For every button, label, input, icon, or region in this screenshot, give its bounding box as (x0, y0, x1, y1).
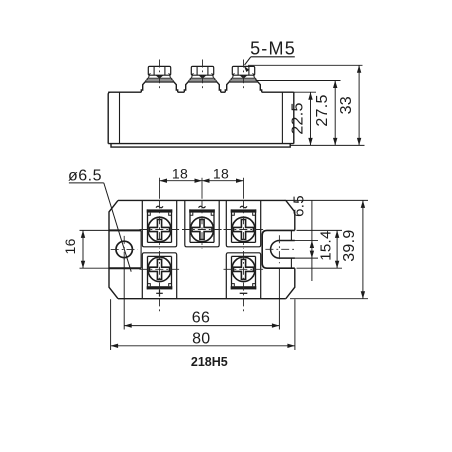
svg-text:33: 33 (338, 96, 355, 114)
svg-text:39.9: 39.9 (341, 229, 358, 261)
svg-text:6.5: 6.5 (290, 195, 307, 217)
svg-text:80: 80 (192, 330, 210, 347)
svg-text:5-M5: 5-M5 (250, 39, 296, 59)
svg-text:16: 16 (62, 238, 78, 254)
svg-text:66: 66 (192, 309, 210, 326)
svg-text:22.5: 22.5 (289, 102, 306, 134)
svg-text:15.4: 15.4 (318, 230, 335, 260)
svg-text:18: 18 (213, 165, 229, 181)
svg-text:218H5: 218H5 (191, 355, 228, 369)
svg-text:ø6.5: ø6.5 (68, 167, 102, 184)
svg-text:18: 18 (172, 165, 188, 181)
svg-text:27.5: 27.5 (314, 94, 331, 126)
